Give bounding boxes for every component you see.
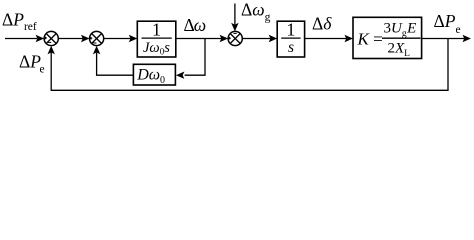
wire S1 to S2 <box>58 38 83 40</box>
arrowhead up into S2 bottom <box>93 46 100 55</box>
svg-text:Jω0s: Jω0s <box>143 40 170 57</box>
S3 minus sign (top) <box>234 32 237 34</box>
svg-text:Δδ: Δδ <box>312 14 332 34</box>
B1 fraction bar <box>142 37 172 39</box>
summer S2 <box>90 31 104 45</box>
svg-text:3UgE: 3UgE <box>384 20 417 39</box>
wire input ΔPref to summer S1 <box>5 38 37 40</box>
S1 minus sign <box>48 41 51 43</box>
wire B2 to block B3 (Δδ) <box>305 38 348 40</box>
arrowhead into B2 <box>269 35 278 42</box>
svg-text:K =: K = <box>357 29 383 48</box>
B3 fraction bar <box>382 37 421 39</box>
wire B1 to S3 (Δω) <box>176 38 223 40</box>
block D1 Dω0 <box>133 64 175 85</box>
wire damping tap down from Δω node <box>185 39 205 76</box>
block B3 K=3UgE/2XL <box>353 17 422 58</box>
arrowhead into S1 <box>36 35 45 42</box>
arrowhead into B3 <box>345 35 354 42</box>
svg-text:s: s <box>288 39 294 56</box>
summer S3 <box>228 31 242 45</box>
svg-text:1: 1 <box>286 20 295 40</box>
wire Δωg drop into S3 <box>234 4 236 27</box>
S3 plus sign <box>228 37 231 40</box>
S2 plus sign <box>90 37 93 40</box>
wire S2 to block B1 <box>104 38 132 40</box>
arrowhead up into S1 bottom <box>48 46 55 55</box>
S1 plus sign <box>44 37 47 40</box>
wire damping block D1 output to S2 <box>97 53 134 76</box>
arrowhead output ΔPe <box>463 35 472 42</box>
arrowhead into B1 <box>129 35 138 42</box>
arrowhead left into D1 <box>176 72 185 79</box>
wire B3 to output ΔPe <box>422 38 465 40</box>
svg-text:Δω: Δω <box>184 15 207 35</box>
arrowhead into S3 <box>220 35 229 42</box>
B2 fraction bar <box>281 37 300 39</box>
wire S3 to block B2 <box>242 38 271 40</box>
S2 minus sign <box>93 42 96 44</box>
arrowhead Δωg down into S3 <box>231 23 238 32</box>
block B1 1/(Jω0s) <box>137 21 176 57</box>
arrowhead into S2 <box>81 35 90 42</box>
svg-text:1: 1 <box>152 20 161 40</box>
wire outer feedback ΔPe to S1 <box>51 39 448 91</box>
block B2 1/s <box>277 21 304 57</box>
summer S1 <box>44 31 58 45</box>
